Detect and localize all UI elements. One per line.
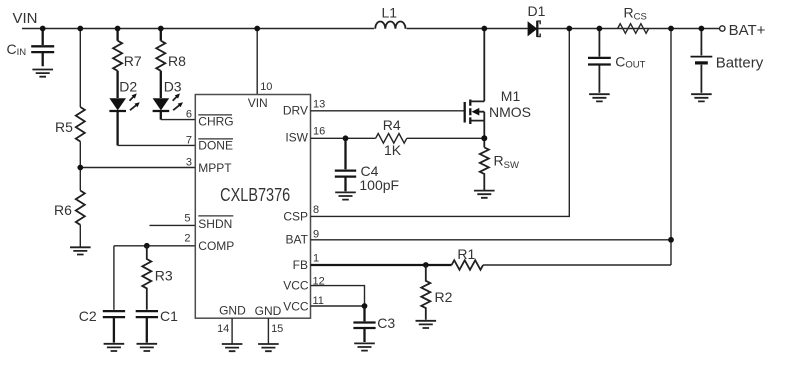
svg-text:1: 1: [313, 253, 319, 265]
svg-text:DONE: DONE: [198, 139, 233, 153]
svg-text:15: 15: [271, 323, 283, 335]
resistor RCS: [618, 5, 649, 34]
svg-text:L1: L1: [382, 4, 398, 20]
wire pin7 DONE from D2: [118, 144, 196, 146]
ground (battery): [691, 94, 712, 101]
svg-text:8: 8: [313, 204, 319, 216]
svg-text:CSP: CSP: [283, 210, 308, 224]
svg-text:CXLB7376: CXLB7376: [220, 186, 290, 206]
wire pin1 FB to R1: [311, 264, 452, 266]
svg-text:R7: R7: [124, 53, 142, 69]
svg-text:7: 7: [186, 134, 192, 146]
svg-text:GND: GND: [219, 303, 246, 317]
wire pin12 VCC: [311, 286, 365, 306]
wire COMP down to C2: [113, 246, 115, 310]
node RSW junction: [481, 135, 487, 141]
svg-text:2: 2: [184, 233, 190, 245]
svg-text:5: 5: [184, 213, 190, 225]
svg-text:MPPT: MPPT: [198, 161, 232, 175]
svg-text:C2: C2: [79, 308, 97, 324]
ground (C1): [137, 344, 158, 351]
wire pin13 DRV to M1 gate: [311, 110, 465, 112]
node ISW/C4 junction: [343, 135, 349, 141]
resistor R3: [142, 246, 173, 310]
node BAT+ terminal: [720, 22, 766, 39]
svg-text:Battery: Battery: [716, 55, 764, 72]
svg-text:VIN: VIN: [248, 96, 268, 110]
inductor L1: [375, 4, 405, 28]
capacitor C1: [136, 308, 178, 343]
resistor R7: [113, 41, 142, 71]
ground (C3): [354, 343, 375, 350]
ground (CIN): [32, 70, 53, 77]
resistor R1: [452, 246, 484, 270]
svg-text:R4: R4: [383, 117, 401, 133]
ground (pin14): [222, 344, 243, 351]
wire M1 drain to top rail: [483, 29, 485, 102]
svg-text:1K: 1K: [384, 142, 402, 158]
node COMP/R3 junction: [144, 243, 150, 249]
wire R8 branch: [160, 29, 162, 120]
wire pin3 MPPT from R5/R6 junction: [80, 167, 195, 169]
wire pin16 ISW: [311, 137, 485, 139]
svg-text:3: 3: [186, 156, 192, 168]
node R5/R6/MPPT junction: [77, 165, 83, 171]
capacitor C4: [335, 138, 399, 193]
svg-text:R1: R1: [457, 246, 475, 262]
svg-text:C1: C1: [160, 308, 178, 324]
svg-text:D2: D2: [119, 79, 137, 95]
resistor R6: [54, 191, 85, 225]
wire pin2 COMP: [114, 245, 195, 247]
ground (COUT): [589, 94, 610, 101]
wire pin11 VCC: [311, 305, 365, 307]
wire R7 branch: [116, 29, 118, 146]
svg-text:R5: R5: [55, 119, 73, 135]
ground (C2): [104, 344, 125, 351]
wire pin15 GND stub: [267, 318, 269, 344]
ground (pin15): [258, 344, 279, 351]
LED D2: [109, 79, 139, 112]
svg-text:R8: R8: [168, 53, 186, 69]
capacitor CIN: [7, 29, 55, 67]
svg-text:COMP: COMP: [198, 239, 234, 253]
wire top rail: [22, 28, 720, 30]
svg-text:ISW: ISW: [285, 130, 308, 144]
svg-text:R6: R6: [54, 202, 72, 218]
node FB/R2 junction: [423, 262, 429, 268]
wire pin14 GND stub: [231, 318, 233, 344]
ground (RSW): [474, 191, 495, 198]
wire M1 source to RSW: [483, 121, 485, 148]
battery symbol: [691, 29, 764, 93]
svg-text:100pF: 100pF: [359, 177, 399, 193]
svg-text:9: 9: [313, 228, 319, 240]
svg-text:CHRG: CHRG: [198, 115, 233, 129]
wire R1 to BAT vertical: [483, 29, 671, 266]
LED D3: [153, 79, 183, 112]
wire pin8 CSP up to rail: [311, 29, 570, 217]
op-amp U1 CXLB7376 IC body: [195, 95, 310, 319]
ground (R2): [416, 321, 437, 328]
wire pin5 SHDN stub: [150, 224, 196, 226]
svg-text:10: 10: [260, 81, 272, 93]
svg-text:14: 14: [217, 323, 229, 335]
node BAT wire junction: [668, 237, 674, 243]
wire R5 branch: [79, 29, 81, 248]
svg-text:VCC: VCC: [283, 299, 309, 313]
svg-text:SHDN: SHDN: [198, 217, 232, 231]
svg-text:VCC: VCC: [283, 278, 309, 292]
wire pin10 VIN drop: [256, 29, 258, 95]
svg-text:BAT+: BAT+: [729, 22, 766, 39]
capacitor C3: [353, 306, 395, 342]
resistor R8: [156, 41, 186, 71]
svg-text:M1: M1: [501, 88, 521, 104]
wire pin6 CHRG from D3: [161, 119, 196, 121]
wire pin9 BAT: [311, 239, 672, 241]
svg-text:C3: C3: [377, 315, 395, 331]
resistor R5: [55, 107, 85, 142]
transistor M1 NMOS: [465, 88, 531, 124]
svg-text:DRV: DRV: [283, 104, 308, 118]
svg-text:R3: R3: [155, 268, 173, 284]
capacitor C2: [79, 308, 125, 343]
resistor R2: [421, 265, 452, 320]
svg-text:GND: GND: [255, 304, 282, 318]
svg-text:D3: D3: [164, 79, 182, 95]
svg-text:BAT: BAT: [286, 233, 309, 247]
node VCC/C3 junction: [362, 303, 368, 309]
svg-text:FB: FB: [293, 258, 308, 272]
ground (R6): [70, 247, 91, 254]
svg-text:16: 16: [313, 126, 325, 138]
svg-text:6: 6: [186, 108, 192, 120]
svg-text:NMOS: NMOS: [489, 104, 531, 120]
diode D1 (schottky): [528, 3, 546, 37]
resistor RSW: [480, 147, 519, 190]
svg-text:13: 13: [313, 98, 325, 110]
capacitor COUT: [588, 29, 646, 93]
svg-text:VIN: VIN: [13, 10, 38, 27]
node dots on top rail: [40, 26, 46, 32]
ground (C4): [335, 192, 356, 199]
svg-text:R2: R2: [435, 289, 453, 305]
svg-text:D1: D1: [528, 3, 546, 19]
resistor R4: [376, 117, 407, 158]
